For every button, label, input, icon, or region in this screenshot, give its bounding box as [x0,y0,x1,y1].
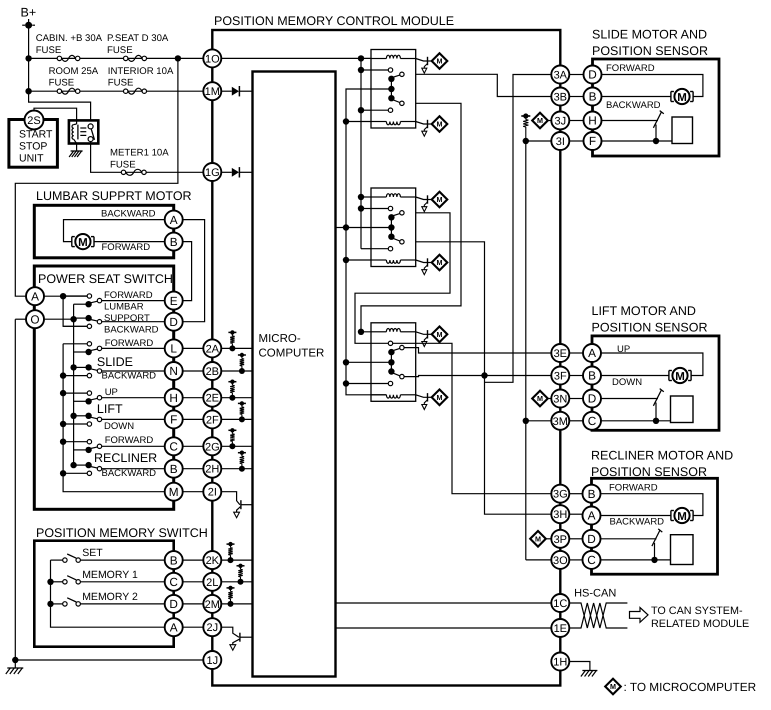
svg-text:B: B [588,369,596,383]
svg-text:POSITION SENSOR: POSITION SENSOR [592,44,708,58]
svg-text:C: C [169,575,178,589]
svg-text:C: C [588,414,597,428]
svg-text:TO CAN SYSTEM-: TO CAN SYSTEM- [651,605,743,617]
svg-text:: TO MICROCOMPUTER: : TO MICROCOMPUTER [624,680,757,694]
svg-text:M: M [537,394,543,403]
junction sensor (recliner sensor) [651,557,657,563]
resistor pull-up at 2L [237,565,245,567]
connector pin O (seat switch) [26,310,44,328]
junction 3F feed [481,372,487,378]
svg-text:2K: 2K [206,555,220,567]
wire rail A to relay2 contact1 [361,208,371,210]
relay contact arm [91,129,94,140]
connector pin F (slide sensor) [584,132,602,150]
svg-text:BACKWARD: BACKWARD [606,100,661,111]
wire 1O to relay K1 coil [221,57,371,59]
svg-text:POWER SEAT SWITCH: POWER SEAT SWITCH [38,272,173,286]
svg-text:M: M [437,120,443,129]
svg-text:E: E [170,294,178,308]
wire rail B to relay3 contact2 [346,383,371,385]
junction sensor chain 3I [523,138,529,144]
svg-text:3B: 3B [554,91,567,103]
svg-text:B: B [170,553,178,567]
unit recliner sensor box [592,478,718,574]
wire B to 2H [183,468,204,470]
svg-text:M: M [610,682,616,691]
svg-text:UP: UP [105,387,118,398]
wire lift sensor motor to terminal [601,375,669,377]
connector pin D (slide sensor) [584,66,602,84]
connector pin E (seat switch) [165,292,183,310]
wire relay K1 output1 to 3B [416,74,552,96]
relay K3 (recliner) moving contact 1 [392,348,400,351]
fuse ROOM 25A [62,88,76,94]
svg-text:H: H [169,391,178,405]
relay K2 (lift) moving contact 1 [392,214,400,217]
svg-text:2J: 2J [206,622,218,634]
wire diamond to 3J [548,120,551,122]
wire pivot common rail [73,304,75,465]
connector pin B (recliner sensor) [583,485,601,503]
svg-text:B: B [170,462,178,476]
module pin 3A [551,66,569,84]
wire wiper (slide sensor) [602,120,659,122]
relay K1 (slide) coil 1 [371,58,386,60]
svg-text:M: M [437,330,443,339]
wire rail A to relay2 coil1 [361,196,371,198]
svg-text:MICRO-: MICRO- [259,333,301,345]
connector pin B (seat switch) [165,460,183,478]
wire 2M to microcomputer [221,603,252,605]
wire motor to lumbar B [94,241,165,243]
wire 3O stub [526,559,552,561]
svg-text:A: A [588,509,596,523]
svg-text:2L: 2L [206,577,218,589]
svg-text:M: M [437,195,443,204]
junction A rail [60,293,66,299]
svg-text:SUPPORT: SUPPORT [104,313,150,324]
junction rail B relay3 contact2 [343,380,349,386]
svg-text:3N: 3N [553,393,567,405]
module pin 3I [551,132,569,150]
unit lift sensor box [592,336,719,430]
svg-text:UNIT: UNIT [19,153,44,165]
wire H to 2E [183,397,204,399]
relay K1 (slide) coil output to microcomputer [416,59,428,62]
bus rail B [346,89,391,395]
svg-text:2E: 2E [206,393,219,405]
unit 2S START STOP UNIT box [9,120,58,168]
svg-text:C: C [169,440,178,454]
svg-text:M: M [78,237,88,249]
connector pin B (lift sensor) [583,367,601,385]
junction 1O rail [358,55,364,61]
junction pivot rail lift [70,413,76,419]
wire 3O to sensor connector [569,559,582,561]
svg-text:B: B [589,90,597,104]
relay K2 (lift) coil output to microcomputer [416,260,428,263]
resistor pull-up at 2F [238,402,246,404]
connector pin C (recliner sensor) [583,551,601,569]
wire 3M to sensor connector [569,420,583,422]
svg-text:3G: 3G [553,489,568,501]
symbol legend diamond [605,679,621,695]
svg-text:FORWARD: FORWARD [606,63,655,74]
svg-text:3A: 3A [554,69,568,81]
svg-text:B: B [170,235,178,249]
module pin 2A [203,339,221,357]
wire L to 2A [183,347,204,349]
wire sensor riser (lift sensor) [655,403,657,421]
symbol to-microcomputer diamond [432,192,448,208]
relay K2 (lift) moving contact 2 [392,238,400,241]
diode D2 (1G feed) [232,168,239,177]
resistor pull-up at 2B [238,354,246,356]
junction O rail [70,316,76,322]
relay coil (start-stop) [72,125,74,140]
connector pin D (memory switch) [165,595,183,613]
switch SET [51,559,63,561]
wire relay K3 output1 to 3E [404,348,551,353]
symbol to-microcomputer diamond at 3J [532,113,548,129]
svg-text:M: M [437,57,443,66]
wire relay K2 output1 to relay K3 contact1 [355,213,450,343]
relay K3 (recliner) contact 1 [371,342,388,344]
wire M rail (fixed contact feed) [63,344,165,492]
diode D1 (1M feed) [232,87,239,96]
resistor pull-up at 2H [238,452,246,454]
wire fuse row 1 (CABIN/P.SEAT to 1O) [29,57,204,59]
junction rail A relay2 coil1 [358,194,364,200]
svg-text:2H: 2H [205,464,219,476]
svg-text:FORWARD: FORWARD [609,483,658,494]
fuse INTERIOR 10A [128,88,142,94]
wire sensor bottom (slide sensor) [602,140,673,142]
symbol to-microcomputer diamond [432,53,448,69]
svg-text:BACKWARD: BACKWARD [102,370,157,381]
svg-text:LIFT MOTOR AND: LIFT MOTOR AND [592,304,696,318]
svg-text:BACKWARD: BACKWARD [102,468,157,479]
module pin 1G [203,163,221,181]
wire slide sensor motor to terminal [602,96,672,98]
junction sensor chain 3M [523,418,529,424]
wire wiper (recliner sensor) [601,538,657,540]
position sensor box (slide sensor) [672,117,693,144]
wire rail A to relay1 contact1 [361,69,371,71]
junction rail B relay2 common [343,224,349,230]
svg-text:C: C [587,553,596,567]
switch lumbar support (E/D rows) [63,295,87,297]
svg-text:2S: 2S [27,115,40,127]
svg-text:MEMORY 2: MEMORY 2 [82,591,138,603]
symbol to-microcomputer diamond [432,255,448,271]
inline connector on B+ line [25,22,32,29]
relay K1 (slide) coil output to microcomputer [416,122,428,125]
wire memory D to 2M [183,603,204,605]
svg-text:1J: 1J [206,655,218,667]
resistor pull-up at 2M [227,587,235,589]
junction B+ to fuse row 2 [25,88,31,94]
module pin 2M [203,595,221,613]
relay K3 (recliner) coil output to microcomputer [416,395,428,398]
wire F to 2F [183,418,204,420]
resistor pull-up at 2E [228,381,236,383]
relay K3 (recliner) coil 1 [371,331,386,333]
svg-text:POSITION MEMORY CONTROL MODULE: POSITION MEMORY CONTROL MODULE [214,14,454,28]
svg-text:FORWARD: FORWARD [102,242,151,253]
wire 3N to sensor connector [569,398,583,400]
switch MEMORY 2 [51,603,63,605]
svg-text:1C: 1C [553,598,567,610]
svg-text:2F: 2F [206,414,219,426]
wire link to 3A [485,75,552,383]
wire memory B to 2K [183,559,204,561]
svg-text:DOWN: DOWN [104,421,134,432]
sensor wiper arm (lift sensor) [653,390,661,406]
ground (1H) [582,670,597,672]
junction sensor (slide sensor) [653,138,659,144]
svg-text:2A: 2A [206,343,220,355]
module pin 1E [551,619,569,637]
wire slide sensor top terminal to motor [602,75,703,97]
connector pin C (seat switch) [165,437,183,455]
module pin 3B [551,88,569,106]
svg-text:SET: SET [82,547,103,559]
relay K2 (lift) common bus [390,217,392,236]
svg-text:1G: 1G [205,167,220,179]
module pin 1O [203,49,221,67]
connector 2S [25,111,44,130]
junction ground rail [12,657,18,663]
wire A rail down [63,296,87,326]
wire rail B to relay1 coil2 [346,121,371,123]
svg-text:RELATED MODULE: RELATED MODULE [651,618,749,630]
svg-text:RECLINER: RECLINER [94,451,157,465]
junction M rail recliner forward [60,439,66,445]
module pin 3O [551,551,569,569]
module pin 2K [203,551,221,569]
svg-text:P.SEAT D 30A: P.SEAT D 30A [107,33,169,44]
wire lumbar A down to switch D [183,220,205,322]
svg-text:COMPUTER: COMPUTER [259,348,325,360]
junction pivot rail recliner [70,462,76,468]
svg-text:H: H [588,114,597,128]
svg-text:CABIN. +B 30A: CABIN. +B 30A [36,33,103,44]
module POSITION MEMORY CONTROL MODULE box [212,30,560,686]
svg-text:1H: 1H [553,656,567,668]
module pin 1H [551,653,569,671]
connector pin A (lift sensor) [583,344,601,362]
svg-text:1O: 1O [205,53,220,65]
svg-text:M: M [535,534,541,543]
svg-text:DOWN: DOWN [612,377,642,388]
svg-text:B+: B+ [21,6,37,20]
svg-text:A: A [170,213,178,227]
symbol to-microcomputer diamond at 3P [530,531,546,547]
wire lumbar B down to switch E [183,242,192,301]
junction rail B relay2 coil2 [343,257,349,263]
svg-text:FORWARD: FORWARD [105,435,154,446]
wire rail A to relay2 contact2 [361,248,371,250]
bus rail A (1O feed) [360,58,362,248]
svg-text:INTERIOR 10A: INTERIOR 10A [108,66,174,77]
connector pin A (lumbar) [165,211,183,229]
junction M rail lift down [60,421,66,427]
wire 2A to microcomputer [221,347,252,349]
relay K2 (lift) coil 1 [371,196,386,198]
junction M rail slide backward [60,372,66,378]
module pin 3J [551,112,569,130]
junction M rail lift up [60,390,66,396]
wire relay K1 output2 to relay K3 coil1 [361,103,461,331]
relay K3 (recliner) coil 2 [371,394,386,396]
svg-text:3F: 3F [554,370,567,382]
wire 3A to sensor connector [569,74,583,76]
svg-text:3I: 3I [556,136,565,148]
module pin 3N [551,390,569,408]
junction relay3 coil1 feed [358,329,364,335]
relay K2 (lift) contact 2 [371,248,388,250]
wire 2H to microcomputer [221,468,252,470]
wire C to 2G [183,445,204,447]
wire O to pivot rail [44,318,74,320]
wire sensor chain down [525,141,527,560]
switch recliner (C/B rows) [63,441,87,443]
arrow to CAN system [630,608,649,623]
wire 2K to microcomputer [221,559,252,561]
svg-text:FORWARD: FORWARD [104,290,153,301]
svg-text:D: D [169,597,178,611]
svg-text:FUSE: FUSE [107,45,133,56]
junction memory rail 2 [47,601,53,607]
relay K1 (slide) contact 1 [371,69,388,71]
svg-text:BACKWARD: BACKWARD [101,209,156,220]
relay K2 (lift) coil 2 [371,259,386,261]
junction memory rail 1 [47,579,53,585]
junction pivot rail slide [70,364,76,370]
relay K1 (slide) moving contact 1 [392,75,400,78]
wire 2L to microcomputer [221,581,252,583]
svg-text:POSITION MEMORY SWITCH: POSITION MEMORY SWITCH [36,526,208,540]
connector pin D (recliner sensor) [583,530,601,548]
wire fuse row 2 (ROOM/INTERIOR to 1M) [29,90,204,92]
relay K3 (recliner) box [371,323,416,402]
wire O to ground rail [15,318,26,320]
svg-text:F: F [170,413,177,427]
wire relay switch to METER1 fuse [91,141,204,172]
wire 3H to sensor connector [569,513,582,515]
svg-text:FUSE: FUSE [108,78,134,89]
unit LUMBAR SUPPRT MOTOR box [34,205,173,257]
connector pin C (lift sensor) [583,412,601,430]
module pin 2B [203,362,221,380]
wire 3F to sensor connector [569,375,583,377]
svg-text:N: N [169,364,178,378]
wire 3I stub [526,140,552,142]
wire rail B to relay2 common [346,227,391,229]
wire 2B to microcomputer [221,370,252,372]
sensor wiper arm (slide sensor) [653,112,661,128]
svg-text:D: D [588,392,597,406]
relay K1 (slide) common bus [390,79,392,98]
connector pin B (slide sensor) [584,88,602,106]
unit MICRO-COMPUTER box [253,72,336,677]
relay K3 (recliner) contact 2 [371,383,388,385]
svg-text:SLIDE: SLIDE [97,355,133,369]
wire microcomputer to 1E [336,627,552,629]
wire 2S to relay coil [34,108,77,124]
wire 1M to diode [221,90,232,92]
connector pin A (recliner sensor) [583,507,601,525]
wire relay K3 output2 to 3F [404,376,551,377]
svg-text:3O: 3O [553,555,568,567]
resistor pull-up at 2G [228,429,236,431]
resistor pull-up at 2K [227,543,235,545]
svg-text:B: B [588,487,596,501]
fuse CABIN. +B 30A [62,55,76,61]
wire relay K3 contact1 to 3G [393,343,552,493]
module pin 3P [551,530,569,548]
wire memory A to 2J [183,626,204,628]
relay K1 (slide) moving contact 2 [392,99,400,102]
connector pin C (memory switch) [165,573,183,591]
svg-text:METER1 10A: METER1 10A [110,148,169,159]
module pin 1M [203,82,221,100]
junction rail B relay3 common [343,359,349,365]
junction row1 to seat-switch feed [175,55,181,61]
svg-text:RECLINER MOTOR AND: RECLINER MOTOR AND [591,448,733,462]
wire recliner sensor top terminal to motor [601,494,703,516]
wire N to 2B [183,370,204,372]
svg-text:M: M [437,258,443,267]
wire lumbar A to motor [64,220,165,242]
wire 2F to microcomputer [221,418,252,420]
unit slide sensor box [593,59,720,156]
wire recliner sensor motor to terminal [601,515,672,517]
relay K2 (lift) coil output to microcomputer [416,197,428,200]
wire 3J to sensor connector [569,120,583,122]
connector pin A (seat switch) [26,287,44,305]
relay K1 (slide) box [371,50,416,129]
module pin 2H [203,460,221,478]
module pin 3F [551,367,569,385]
svg-text:HS-CAN: HS-CAN [574,588,616,600]
wire 1H to ground [569,662,590,671]
switch slide (L/N rows) [63,343,87,345]
module pin 3E [551,344,569,362]
junction sensor (lift sensor) [653,418,659,424]
svg-text:START: START [19,129,53,141]
wire 1G to diode [221,171,232,173]
svg-text:2G: 2G [205,441,220,453]
symbol to-microcomputer diamond [432,116,448,132]
wire rail A to relay1 contact2 [361,109,371,111]
twisted pair CAN-H [569,603,627,628]
svg-text:2M: 2M [205,599,220,611]
module pin 1C [551,594,569,612]
svg-text:STOP: STOP [19,141,47,153]
svg-text:M: M [537,116,543,125]
module pin 3H [551,505,569,523]
connector pin D (lift sensor) [583,390,601,408]
junction B+ to fuse row 1 [25,55,31,61]
svg-text:D: D [588,68,597,82]
svg-text:D: D [169,315,178,329]
wire sensor bottom (lift sensor) [601,420,671,422]
svg-text:A: A [588,346,596,360]
svg-text:3P: 3P [554,534,567,546]
svg-text:2B: 2B [206,366,219,378]
